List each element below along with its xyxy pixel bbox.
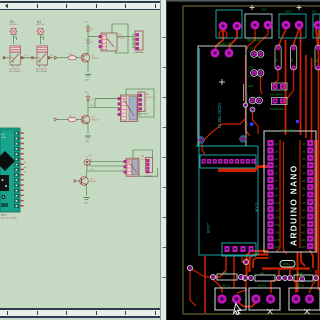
svg-text:RLY-SPCO: RLY-SPCO: [10, 68, 21, 70]
svg-text:R2: R2: [275, 58, 279, 62]
svg-text:4AM: 4AM: [85, 78, 89, 81]
svg-text:A13: A13: [301, 238, 306, 242]
svg-text:ACT2: ACT2: [258, 284, 266, 288]
svg-text:RL1: RL1: [37, 21, 42, 23]
svg-text:GND+DGND: GND+DGND: [270, 108, 285, 111]
svg-text:TB-AC-IN: TB-AC-IN: [217, 42, 232, 46]
svg-text:LED: LED: [248, 84, 253, 88]
svg-text:A4: A4: [302, 172, 306, 176]
svg-text:2N2222: 2N2222: [92, 58, 100, 60]
svg-text:A11: A11: [301, 223, 306, 227]
svg-text:A5: A5: [302, 179, 306, 183]
svg-text:dim5: dim5: [1, 137, 7, 139]
svg-text:D7: D7: [275, 179, 279, 183]
svg-text:D12: D12: [275, 216, 280, 220]
svg-text:D9: D9: [275, 194, 279, 198]
svg-text:U1 NANO: U1 NANO: [281, 129, 294, 133]
svg-text:D5: D5: [275, 164, 279, 168]
svg-text:ARDUINO NANO: ARDUINO NANO: [1, 217, 18, 220]
svg-text:D15: D15: [275, 238, 280, 242]
svg-text:A3: A3: [302, 164, 306, 168]
svg-text:C1: C1: [250, 46, 254, 50]
svg-text:A2: A2: [302, 157, 306, 161]
svg-text:G5CLE-1: G5CLE-1: [36, 24, 46, 26]
svg-text:AUX+: AUX+: [285, 10, 293, 14]
svg-text:USB1: USB1: [283, 262, 291, 266]
svg-text:RLY-SPCO: RLY-SPCO: [37, 68, 48, 70]
svg-text:+5V: +5V: [84, 22, 88, 24]
svg-text:A9: A9: [302, 208, 306, 212]
svg-text:A6: A6: [302, 186, 306, 190]
svg-text:R7: R7: [315, 58, 319, 62]
svg-text:VUU: VUU: [261, 8, 267, 12]
svg-text:A0: A0: [302, 142, 306, 146]
svg-text:TB-5V-IN: TB-5V-IN: [247, 39, 261, 43]
svg-text:A14: A14: [301, 245, 306, 249]
svg-text:AU: AU: [312, 10, 316, 14]
svg-text:A8: A8: [302, 201, 306, 205]
svg-text:R4: R4: [290, 58, 294, 62]
svg-text:JZC-32F-05: JZC-32F-05: [9, 71, 21, 73]
svg-text:4AM: 4AM: [84, 202, 88, 205]
svg-text:BOLT: BOLT: [206, 222, 211, 233]
svg-text:D13: D13: [275, 223, 280, 227]
svg-text:ARD1: ARD1: [1, 214, 8, 217]
svg-text:D3: D3: [275, 150, 279, 154]
svg-text:D4: D4: [275, 157, 279, 161]
svg-text:C8: C8: [250, 66, 254, 70]
svg-text:CONN-SIL4: CONN-SIL4: [137, 114, 149, 116]
svg-text:A7: A7: [302, 194, 306, 198]
svg-text:A12: A12: [301, 230, 306, 234]
svg-text:CAMERA: CAMERA: [134, 51, 144, 54]
svg-text:D8: D8: [275, 186, 279, 190]
svg-text:+5V: +5V: [84, 92, 88, 94]
svg-text:PC817: PC817: [119, 37, 126, 39]
svg-text:D2: D2: [275, 142, 279, 146]
svg-text:D6: D6: [275, 172, 279, 176]
svg-text:ACT1: ACT1: [222, 284, 230, 288]
svg-text:D14: D14: [275, 230, 280, 234]
svg-text:ARDUINO NANO: ARDUINO NANO: [289, 165, 299, 246]
svg-text:A10: A10: [301, 216, 306, 220]
svg-text:4AM: 4AM: [85, 140, 89, 143]
svg-text:BC547: BC547: [90, 181, 97, 183]
svg-text:ACT3: ACT3: [296, 284, 304, 288]
svg-text:RL1: RL1: [10, 21, 15, 23]
svg-text:BOLT1: BOLT1: [255, 202, 259, 212]
svg-text:PC817-C: PC817-C: [146, 97, 155, 99]
svg-text:G5CLE-1: G5CLE-1: [9, 24, 19, 26]
svg-text:MCX1: MCX1: [245, 92, 249, 100]
svg-text:JZC-32F-05: JZC-32F-05: [36, 71, 48, 73]
svg-text:BUZZER: BUZZER: [145, 176, 154, 178]
svg-text:D11: D11: [275, 208, 280, 212]
svg-text:+5V: +5V: [88, 155, 92, 157]
svg-text:D10: D10: [275, 201, 280, 205]
svg-text:HLS8L-DC5V: HLS8L-DC5V: [217, 102, 222, 128]
svg-text:D16: D16: [275, 245, 280, 249]
svg-text:A1: A1: [302, 150, 306, 154]
svg-text:2N2222: 2N2222: [92, 120, 100, 122]
svg-text:NC+AGND: NC+AGND: [271, 94, 283, 97]
